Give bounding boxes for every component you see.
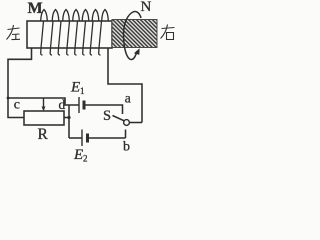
svg-text:E: E: [70, 80, 80, 96]
svg-text:2: 2: [83, 154, 88, 164]
junction column wire (E1/E2 common): [68, 105, 70, 138]
wire: coil left end down and to left side: [8, 48, 32, 98]
wire: E2 to contact b: [89, 137, 126, 139]
contact b bar: [125, 130, 127, 139]
svg-text:c: c: [14, 97, 20, 112]
switch S pivot: [124, 120, 130, 126]
svg-text:N: N: [141, 0, 152, 15]
svg-text:d: d: [59, 97, 66, 112]
label 右 (hand-drawn glyph): [161, 25, 175, 40]
rotation arrow around core end: [124, 12, 142, 60]
wire: slider rail from left junction to right junction: [8, 98, 79, 105]
wire: junction column to E2: [69, 137, 82, 139]
battery E2 short plate: [86, 134, 89, 143]
hatched core end (rotor bar): [112, 20, 157, 48]
battery E1 long plate: [78, 97, 80, 113]
resistor R body: [24, 111, 64, 125]
node at left junction: [7, 97, 10, 100]
battery E2 long plate: [81, 130, 83, 147]
wire: switch common to right column: [129, 122, 142, 124]
wire: resistor right terminal to junction column: [64, 117, 69, 119]
label 左 (hand-drawn glyph): [7, 25, 21, 40]
wire: left side down to rheostat left terminal: [8, 98, 24, 118]
node at resistor/column junction: [67, 116, 70, 119]
svg-text:R: R: [38, 126, 49, 143]
battery E1 short plate: [83, 101, 86, 110]
svg-text:S: S: [103, 108, 111, 124]
svg-text:E: E: [73, 147, 83, 163]
switch S lever: [113, 116, 125, 121]
rheostat wiper arrow: [43, 98, 45, 108]
svg-text:1: 1: [80, 86, 85, 96]
wire: E1 to contact a: [86, 105, 123, 114]
coil winding through-lines with bottom hooks: [41, 21, 44, 55]
coil core body (solenoid former): [27, 21, 112, 48]
svg-text:b: b: [123, 140, 130, 155]
coil L windings (7 turns over top of core): [41, 10, 48, 22]
wire: right column up and across to coil right end: [108, 48, 142, 123]
svg-text:a: a: [125, 90, 131, 105]
svg-text:M: M: [28, 0, 43, 17]
